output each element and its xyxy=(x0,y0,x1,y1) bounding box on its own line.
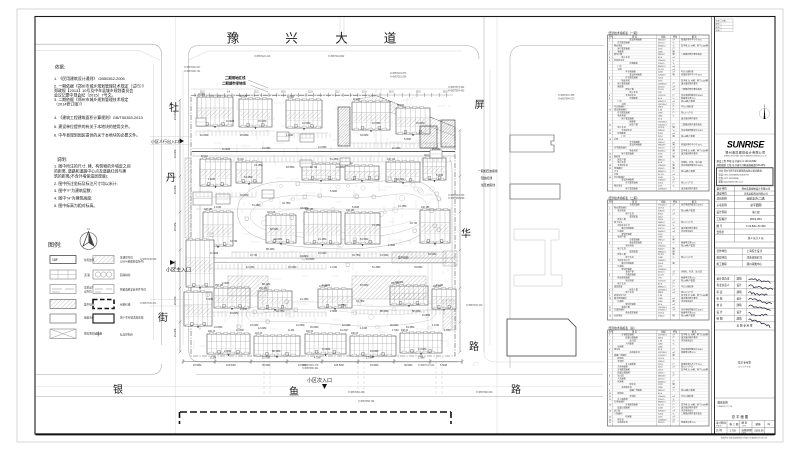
svg-text:专业负责人: 专业负责人 xyxy=(717,283,730,287)
svg-text:19604.6: 19604.6 xyxy=(658,165,666,167)
svg-text:19604.6: 19604.6 xyxy=(658,245,666,247)
svg-text:建筑: 建筑 xyxy=(737,276,743,280)
svg-text:%: % xyxy=(673,60,675,62)
svg-text:5572.0: 5572.0 xyxy=(658,228,665,230)
svg-text:1.10M: 1.10M xyxy=(208,178,215,181)
svg-text:15.50M: 15.50M xyxy=(370,364,378,367)
svg-text:m²: m² xyxy=(673,227,676,230)
svg-text:华: 华 xyxy=(461,227,471,240)
qualification rows xyxy=(717,159,766,167)
svg-text:35.2%: 35.2% xyxy=(658,405,664,407)
svg-text:普通停车位: 普通停车位 xyxy=(120,256,133,260)
svg-text:11.90M: 11.90M xyxy=(422,314,430,317)
svg-text:郑州浩境规划设计有限公司: 郑州浩境规划设计有限公司 xyxy=(725,149,765,154)
svg-text:规划编制 乙级 证书编号 [豫]城规编第(0412: 规划编制 乙级 证书编号 [豫]城规编第(041205) xyxy=(717,163,766,167)
svg-text:X=3857419.802: X=3857419.802 xyxy=(328,56,345,58)
svg-text:10# 11F: 10# 11F xyxy=(387,159,396,161)
courtyard trees xyxy=(258,183,435,330)
svg-text:鱼: 鱼 xyxy=(289,385,299,398)
svg-text:X=3857980.402: X=3857980.402 xyxy=(302,368,319,370)
east off-site building R2 xyxy=(510,184,560,199)
svg-text:21# 2F: 21# 2F xyxy=(255,333,263,335)
svg-text:m²: m² xyxy=(673,88,676,91)
svg-text:16.80M: 16.80M xyxy=(274,238,282,241)
driveway dashes across south road xyxy=(264,356,442,396)
svg-text:88.40M: 88.40M xyxy=(262,283,270,286)
svg-text:4.70M: 4.70M xyxy=(392,330,398,332)
signature rows xyxy=(715,275,776,328)
svg-text:合作单位: 合作单位 xyxy=(717,249,728,253)
svg-text:137639.4: 137639.4 xyxy=(658,104,668,106)
svg-text:集中绿地: 集中绿地 xyxy=(398,256,409,260)
bottom info table xyxy=(715,421,776,435)
svg-text:工程编号: 工程编号 xyxy=(717,217,728,221)
svg-text:图例:: 图例: xyxy=(48,241,62,249)
svg-text:m²: m² xyxy=(673,147,676,150)
svg-text:小区人行出入口: 小区人行出入口 xyxy=(151,138,179,144)
svg-text:176441.7: 176441.7 xyxy=(658,124,668,126)
svg-text:5.00M: 5.00M xyxy=(330,190,337,193)
svg-text:11.90M: 11.90M xyxy=(226,120,234,123)
svg-text:上海院士设计: 上海院士设计 xyxy=(747,249,763,253)
svg-text:1# 18F: 1# 18F xyxy=(198,94,206,96)
svg-text:建筑: 建筑 xyxy=(737,290,743,294)
svg-text:总 平 面 图: 总 平 面 图 xyxy=(732,414,749,419)
svg-text:12.00M: 12.00M xyxy=(258,327,266,330)
svg-text:129806.9: 129806.9 xyxy=(658,83,668,85)
svg-text:58813.9: 58813.9 xyxy=(658,145,666,147)
svg-text:15.00M: 15.00M xyxy=(262,147,270,150)
notes 说明 xyxy=(54,156,131,208)
drawing name area xyxy=(715,397,776,399)
svg-text:道 路: 道 路 xyxy=(84,273,90,277)
svg-text:45.60M: 45.60M xyxy=(240,134,248,137)
svg-text:5. 图中标高为相对标高。: 5. 图中标高为相对标高。 xyxy=(54,203,97,208)
svg-text:20584.9: 20584.9 xyxy=(658,180,666,182)
svg-text:施工图审: 施工图审 xyxy=(717,262,728,266)
svg-text:88.40M: 88.40M xyxy=(272,350,280,353)
svg-text:m²: m² xyxy=(673,132,676,135)
svg-text:45.60M: 45.60M xyxy=(310,326,318,329)
svg-text:X=3857424.413: X=3857424.413 xyxy=(254,56,271,58)
svg-text:12.00M: 12.00M xyxy=(246,266,254,269)
svg-text:园林绿化: 园林绿化 xyxy=(120,273,131,277)
svg-text:依据:: 依据: xyxy=(55,64,65,71)
svg-text:2019-004: 2019-004 xyxy=(750,217,762,221)
svg-text:33.60M: 33.60M xyxy=(414,266,422,269)
svg-text:X=3857658.194: X=3857658.194 xyxy=(358,401,375,403)
svg-text:3# 18F: 3# 18F xyxy=(287,97,295,99)
svg-text:36.50M: 36.50M xyxy=(404,364,412,367)
svg-text:13# 18F: 13# 18F xyxy=(346,210,355,212)
svg-text:11.90M: 11.90M xyxy=(322,284,330,287)
svg-text:120.0: 120.0 xyxy=(658,139,664,141)
svg-text:阻油红线: 阻油红线 xyxy=(481,176,492,180)
svg-text:18F: 18F xyxy=(52,258,58,262)
svg-text:12.00M: 12.00M xyxy=(392,147,400,150)
svg-text:588.0: 588.0 xyxy=(658,292,664,294)
shop strip labels xyxy=(210,330,450,360)
svg-text:郑州审图中心: 郑州审图中心 xyxy=(747,262,763,266)
svg-text:2.30M: 2.30M xyxy=(222,282,229,285)
svg-text:丹: 丹 xyxy=(166,172,176,184)
svg-text:2.70M: 2.70M xyxy=(366,358,372,360)
svg-text:58813.9: 58813.9 xyxy=(658,225,666,227)
svg-text:2# 18F: 2# 18F xyxy=(240,96,248,98)
svg-text:21.15M: 21.15M xyxy=(254,164,262,167)
svg-text:%: % xyxy=(673,98,675,100)
svg-text:屏: 屏 xyxy=(475,99,485,111)
NS connector lanes xyxy=(238,17,432,330)
svg-text:1176.0: 1176.0 xyxy=(658,127,665,129)
svg-text:m²: m² xyxy=(673,152,676,155)
legend row 铺装及活动场地 / 地下车库范围 xyxy=(50,314,76,323)
svg-text:预留电梯安装条件车位: 预留电梯安装条件车位 xyxy=(120,288,146,292)
svg-text:设计单位: 设计单位 xyxy=(717,187,728,191)
svg-text:41.50M: 41.50M xyxy=(418,348,426,351)
svg-text:F 19-BA1-JC-306: F 19-BA1-JC-306 xyxy=(746,225,766,228)
svg-text:m²: m² xyxy=(673,221,676,224)
road Yuxing-Avenue south curb east of Mudan xyxy=(189,46,480,60)
svg-text:5280.6: 5280.6 xyxy=(658,361,665,363)
svg-text:16.80M: 16.80M xyxy=(306,258,314,261)
svg-text:10.7M: 10.7M xyxy=(410,222,417,225)
svg-text:1176.0: 1176.0 xyxy=(658,207,665,209)
north fence line xyxy=(191,88,460,90)
svg-text:4.70M: 4.70M xyxy=(314,358,320,360)
svg-text:5280.6: 5280.6 xyxy=(658,316,665,318)
svg-text:设计总负责: 设计总负责 xyxy=(717,276,730,280)
svg-text:88.40M: 88.40M xyxy=(380,310,388,313)
svg-text:33.60M: 33.60M xyxy=(300,207,308,210)
pin circle symbol xyxy=(759,108,769,118)
svg-text:地下车库坡道及范围: 地下车库坡道及范围 xyxy=(120,316,144,320)
svg-text:120.0: 120.0 xyxy=(658,370,664,372)
svg-text:X=3857866.899: X=3857866.899 xyxy=(448,198,465,200)
svg-text:12.0: 12.0 xyxy=(308,91,313,93)
svg-text:51.45M: 51.45M xyxy=(372,266,380,269)
svg-text:1.10M: 1.10M xyxy=(286,134,293,137)
scattered small features xyxy=(206,176,440,328)
svg-text:m²: m² xyxy=(673,334,676,337)
svg-text:45.60M: 45.60M xyxy=(416,122,424,125)
road Yuxing-Avenue south curb west block xyxy=(35,44,162,345)
svg-text:5.00M: 5.00M xyxy=(206,298,213,301)
Mudan street center line xyxy=(174,17,176,434)
svg-text:%: % xyxy=(673,63,675,65)
svg-text:11.90M: 11.90M xyxy=(222,148,230,151)
svg-text:38802.3: 38802.3 xyxy=(658,171,666,173)
svg-text:m²: m² xyxy=(673,271,676,274)
building row 2 xyxy=(200,156,231,188)
building row 5 (south shops) xyxy=(207,331,250,356)
svg-text:22# 2F: 22# 2F xyxy=(306,331,314,333)
svg-text:2.30M: 2.30M xyxy=(330,310,337,313)
svg-text:38802.3: 38802.3 xyxy=(658,66,666,68)
svg-text:33.60M: 33.60M xyxy=(240,194,248,197)
svg-text:5. 建设单位提供的有关于本地块的使用文件。: 5. 建设单位提供的有关于本地块的使用文件。 xyxy=(54,124,132,129)
svg-text:15.00M: 15.00M xyxy=(174,329,177,337)
Mudan west sidewalk line xyxy=(153,64,155,340)
svg-text:设计阶段: 设计阶段 xyxy=(717,210,728,214)
svg-text:137639.4: 137639.4 xyxy=(658,121,668,123)
svg-text:4.70M: 4.70M xyxy=(444,330,450,332)
svg-text:10.7M: 10.7M xyxy=(310,166,317,169)
svg-text:远航蓝湾(二期): 远航蓝湾(二期) xyxy=(746,197,765,201)
legend row 住宅建筑 / 普通停车位 xyxy=(50,256,146,339)
svg-text:26.5: 26.5 xyxy=(389,91,394,93)
svg-text:12.0: 12.0 xyxy=(362,91,367,93)
svg-text:36450.2: 36450.2 xyxy=(658,381,666,383)
west dimension chain xyxy=(179,99,182,354)
svg-text:经济技术指标表（总）: 经济技术指标表（总） xyxy=(609,326,637,330)
svg-text:2260.5: 2260.5 xyxy=(658,168,665,170)
svg-text:m²: m² xyxy=(673,279,676,282)
svg-text:34.75M: 34.75M xyxy=(338,304,346,307)
svg-text:审 核: 审 核 xyxy=(717,297,723,301)
hatched parking bands xyxy=(352,276,426,299)
svg-text:m²: m² xyxy=(673,230,676,233)
svg-text:勘察单位: 勘察单位 xyxy=(717,256,728,260)
NE diagonal buffer strip xyxy=(356,96,455,137)
svg-text:X=3857180.741: X=3857180.741 xyxy=(184,71,201,73)
svg-text:10.7M: 10.7M xyxy=(436,284,443,287)
svg-text:11762.8: 11762.8 xyxy=(658,95,666,97)
svg-text:5881.4: 5881.4 xyxy=(658,390,665,392)
svg-text:1.10M: 1.10M xyxy=(360,327,367,330)
svg-text:2.30M: 2.30M xyxy=(224,350,231,353)
svg-text:5.00M: 5.00M xyxy=(436,174,443,177)
svg-text:41.50M: 41.50M xyxy=(380,254,388,257)
svg-text:路: 路 xyxy=(469,340,479,353)
svg-text:5572.0: 5572.0 xyxy=(658,148,665,150)
site plan xyxy=(140,17,576,424)
svg-text:12.00M: 12.00M xyxy=(200,134,208,137)
svg-text:X=3857221.873: X=3857221.873 xyxy=(390,73,407,75)
svg-text:41.50M: 41.50M xyxy=(214,326,222,329)
svg-text:2.30M: 2.30M xyxy=(388,244,395,247)
partner unit rows xyxy=(715,248,776,267)
svg-text:经济技术指标表（二期）: 经济技术指标表（二期） xyxy=(609,196,640,200)
svg-text:2260.5: 2260.5 xyxy=(658,399,665,401)
svg-text:%: % xyxy=(673,130,675,132)
svg-text:会签栏: 会签栏 xyxy=(717,230,725,234)
svg-text:5572.0: 5572.0 xyxy=(658,42,665,44)
svg-text:%: % xyxy=(673,340,675,342)
legend row 集中绿地 / 用地红线 xyxy=(50,300,76,309)
svg-text:m²: m² xyxy=(673,179,676,182)
svg-text:%: % xyxy=(673,373,675,375)
svg-text:%: % xyxy=(673,162,675,164)
central green strip hatch xyxy=(392,252,446,263)
svg-text:%: % xyxy=(673,115,675,117)
svg-text:X=3857193.313: X=3857193.313 xyxy=(466,305,483,307)
svg-text:1.10M: 1.10M xyxy=(330,266,337,269)
svg-text:（2014修订版）》: （2014修订版）》 xyxy=(54,102,84,107)
svg-text:校 对: 校 对 xyxy=(717,303,723,307)
east dimension chain xyxy=(459,129,462,354)
svg-text:15.00M: 15.00M xyxy=(174,112,177,120)
Mudan east curb xyxy=(188,56,190,348)
svg-text:m²: m² xyxy=(673,395,676,398)
svg-text:5.50M: 5.50M xyxy=(440,364,447,367)
svg-text:10.7M: 10.7M xyxy=(230,240,237,243)
internal path line xyxy=(196,208,452,210)
svg-text:m²: m² xyxy=(673,297,676,300)
svg-text:15.00M: 15.00M xyxy=(250,324,258,327)
svg-text:说明:: 说明: xyxy=(57,156,67,163)
svg-text:38802.3: 38802.3 xyxy=(658,101,666,103)
svg-text:36450.2: 36450.2 xyxy=(658,151,666,153)
contact box xyxy=(717,168,774,186)
svg-text:河南省地矿局: 河南省地矿局 xyxy=(747,256,763,260)
svg-text:图纸名称: 图纸名称 xyxy=(718,401,729,405)
svg-text:11762.8: 11762.8 xyxy=(658,280,666,282)
svg-text:58813.9: 58813.9 xyxy=(658,375,666,377)
road Pinghua-Road curbs xyxy=(483,17,485,352)
svg-text:m²: m² xyxy=(673,418,676,421)
underground garage boundary (thick dashed) xyxy=(180,412,452,424)
tower hatch block H1 xyxy=(338,107,350,146)
svg-text:建设工程 甲级 证书编号 A 141014582: 建设工程 甲级 证书编号 A 141014582 xyxy=(717,159,758,163)
svg-text:施 工 图: 施 工 图 xyxy=(730,422,739,426)
svg-text:一期加压启振线: 一期加压启振线 xyxy=(478,169,498,173)
svg-text:15.00M: 15.00M xyxy=(174,186,177,194)
svg-text:88.40M: 88.40M xyxy=(412,310,420,313)
svg-text:19604.6: 19604.6 xyxy=(658,396,666,398)
svg-text:137639.4: 137639.4 xyxy=(658,289,668,291)
svg-text:施工图: 施工图 xyxy=(752,210,760,214)
svg-text:30.0: 30.0 xyxy=(281,91,286,93)
svg-text:兴: 兴 xyxy=(285,32,298,46)
svg-text:15.2: 15.2 xyxy=(254,91,259,93)
svg-text:15.00M: 15.00M xyxy=(258,120,266,123)
svg-text:11.90M: 11.90M xyxy=(210,252,218,255)
scattered elevation labels xyxy=(200,120,443,353)
svg-text:15.50M: 15.50M xyxy=(193,364,201,367)
svg-text:200.0: 200.0 xyxy=(658,78,664,80)
svg-text:15.00M: 15.00M xyxy=(370,350,378,353)
svg-text:2680.4: 2680.4 xyxy=(658,142,665,144)
svg-text:41.50M: 41.50M xyxy=(296,324,304,327)
svg-text:大: 大 xyxy=(335,32,348,46)
svg-text:加压启振线: 加压启振线 xyxy=(481,183,495,187)
svg-text:21.15M: 21.15M xyxy=(300,298,308,301)
svg-text:10# 18F: 10# 18F xyxy=(204,209,213,211)
svg-text:5.00M: 5.00M xyxy=(352,206,359,209)
svg-text:11.90M: 11.90M xyxy=(322,348,330,351)
svg-text:SUNRISE: SUNRISE xyxy=(727,139,765,149)
svg-text:筑的距离(不含外墙保温层厚度);: 筑的距离(不含外墙保温层厚度); xyxy=(54,173,108,178)
building row 3 xyxy=(203,209,233,248)
title block division line xyxy=(710,17,712,435)
svg-text:5881.4: 5881.4 xyxy=(658,54,665,56)
svg-text:m²: m² xyxy=(673,309,676,312)
site-side green line top xyxy=(189,51,463,60)
svg-text:X=3857137.543: X=3857137.543 xyxy=(418,365,435,367)
small infill structures xyxy=(193,118,442,319)
svg-text:30.0: 30.0 xyxy=(416,91,421,93)
svg-text:45.60M: 45.60M xyxy=(288,266,296,269)
svg-text:m²: m² xyxy=(673,141,676,144)
north compass xyxy=(80,232,97,250)
svg-text:1. 《民用建筑设计通则》 GB50352-2005: 1. 《民用建筑设计通则》 GB50352-2005 xyxy=(54,76,125,81)
svg-text:m²: m² xyxy=(673,409,676,412)
svg-text:%: % xyxy=(673,343,675,345)
svg-text:1.10M: 1.10M xyxy=(214,206,221,209)
svg-text:道: 道 xyxy=(384,32,397,46)
svg-text:20584.9: 20584.9 xyxy=(658,75,666,77)
svg-text:137639.4: 137639.4 xyxy=(658,352,668,354)
legend row 测绘警用储电 / 标高控制点 xyxy=(50,329,76,339)
svg-text:20.1%: 20.1% xyxy=(658,275,664,277)
svg-text:63.50M: 63.50M xyxy=(286,166,294,169)
svg-text:设计: 设计 xyxy=(737,283,743,287)
svg-text:%: % xyxy=(673,225,675,227)
svg-text:58813.9: 58813.9 xyxy=(658,40,666,42)
svg-text:34.75M: 34.75M xyxy=(276,310,284,313)
svg-text:11# 18F: 11# 18F xyxy=(267,212,276,214)
svg-text:出 图 专 用 章: 出 图 专 用 章 xyxy=(737,324,753,328)
svg-text:2680.4: 2680.4 xyxy=(658,222,665,224)
sign-off mini table xyxy=(715,19,733,32)
svg-text:200.0: 200.0 xyxy=(658,413,664,415)
svg-text:设计: 设计 xyxy=(737,310,743,314)
svg-text:5881.4: 5881.4 xyxy=(658,159,665,161)
svg-text:137639.4: 137639.4 xyxy=(658,307,668,309)
svg-text:176441.7: 176441.7 xyxy=(658,355,668,357)
svg-text:588.0: 588.0 xyxy=(658,337,664,339)
svg-text:m²: m² xyxy=(673,71,676,74)
svg-text:第 1 张 共 1 张: 第 1 张 共 1 张 xyxy=(748,236,764,240)
svg-text:176441.7: 176441.7 xyxy=(658,205,668,207)
svg-text:19604.6: 19604.6 xyxy=(658,60,666,62)
svg-text:设计阶段: 设计阶段 xyxy=(716,421,727,425)
svg-text:63.50M: 63.50M xyxy=(270,228,278,231)
svg-text:4. 图中"H"为建筑高度;: 4. 图中"H"为建筑高度; xyxy=(54,196,92,201)
svg-text:41.50M: 41.50M xyxy=(302,122,310,125)
svg-text:51.45M: 51.45M xyxy=(252,204,260,207)
svg-text:m²: m² xyxy=(673,100,676,103)
svg-text:35.2%: 35.2% xyxy=(658,69,664,71)
svg-text:588.0: 588.0 xyxy=(658,107,664,109)
road Yinyu-Road north curb xyxy=(35,364,162,375)
svg-text:%: % xyxy=(673,243,675,245)
svg-text:38802.3: 38802.3 xyxy=(658,402,666,404)
svg-text:2. 图中所注坐标及标注尺寸均以米计;: 2. 图中所注坐标及标注尺寸均以米计; xyxy=(54,181,118,186)
building row 1 (north) xyxy=(197,94,233,128)
svg-text:河南远航置业有限公司: 河南远航置业有限公司 xyxy=(744,192,769,196)
svg-text:120.0: 120.0 xyxy=(658,219,664,221)
svg-text:m²: m² xyxy=(673,68,676,71)
svg-text:测绘警局储备地: 测绘警局储备地 xyxy=(84,332,103,336)
svg-text:m²: m² xyxy=(673,65,676,68)
svg-text:1:700: 1:700 xyxy=(730,430,737,433)
svg-text:(100%预留充电条件): (100%预留充电条件) xyxy=(120,260,144,264)
svg-text:51.45M: 51.45M xyxy=(330,158,338,161)
svg-text:12.70M: 12.70M xyxy=(262,358,270,360)
svg-text:15.00M: 15.00M xyxy=(318,252,326,255)
svg-text:12.00M: 12.00M xyxy=(342,324,350,327)
west buildings xyxy=(186,238,214,289)
svg-text:33.60M: 33.60M xyxy=(360,134,368,137)
svg-text:DRAWING TITLE: DRAWING TITLE xyxy=(718,405,733,408)
svg-text:34.70M: 34.70M xyxy=(340,330,348,332)
svg-text:5572.0: 5572.0 xyxy=(658,378,665,380)
svg-text:21.15M: 21.15M xyxy=(318,238,326,241)
svg-text:129806.9: 129806.9 xyxy=(658,269,668,271)
svg-text:21.15M: 21.15M xyxy=(398,205,406,208)
